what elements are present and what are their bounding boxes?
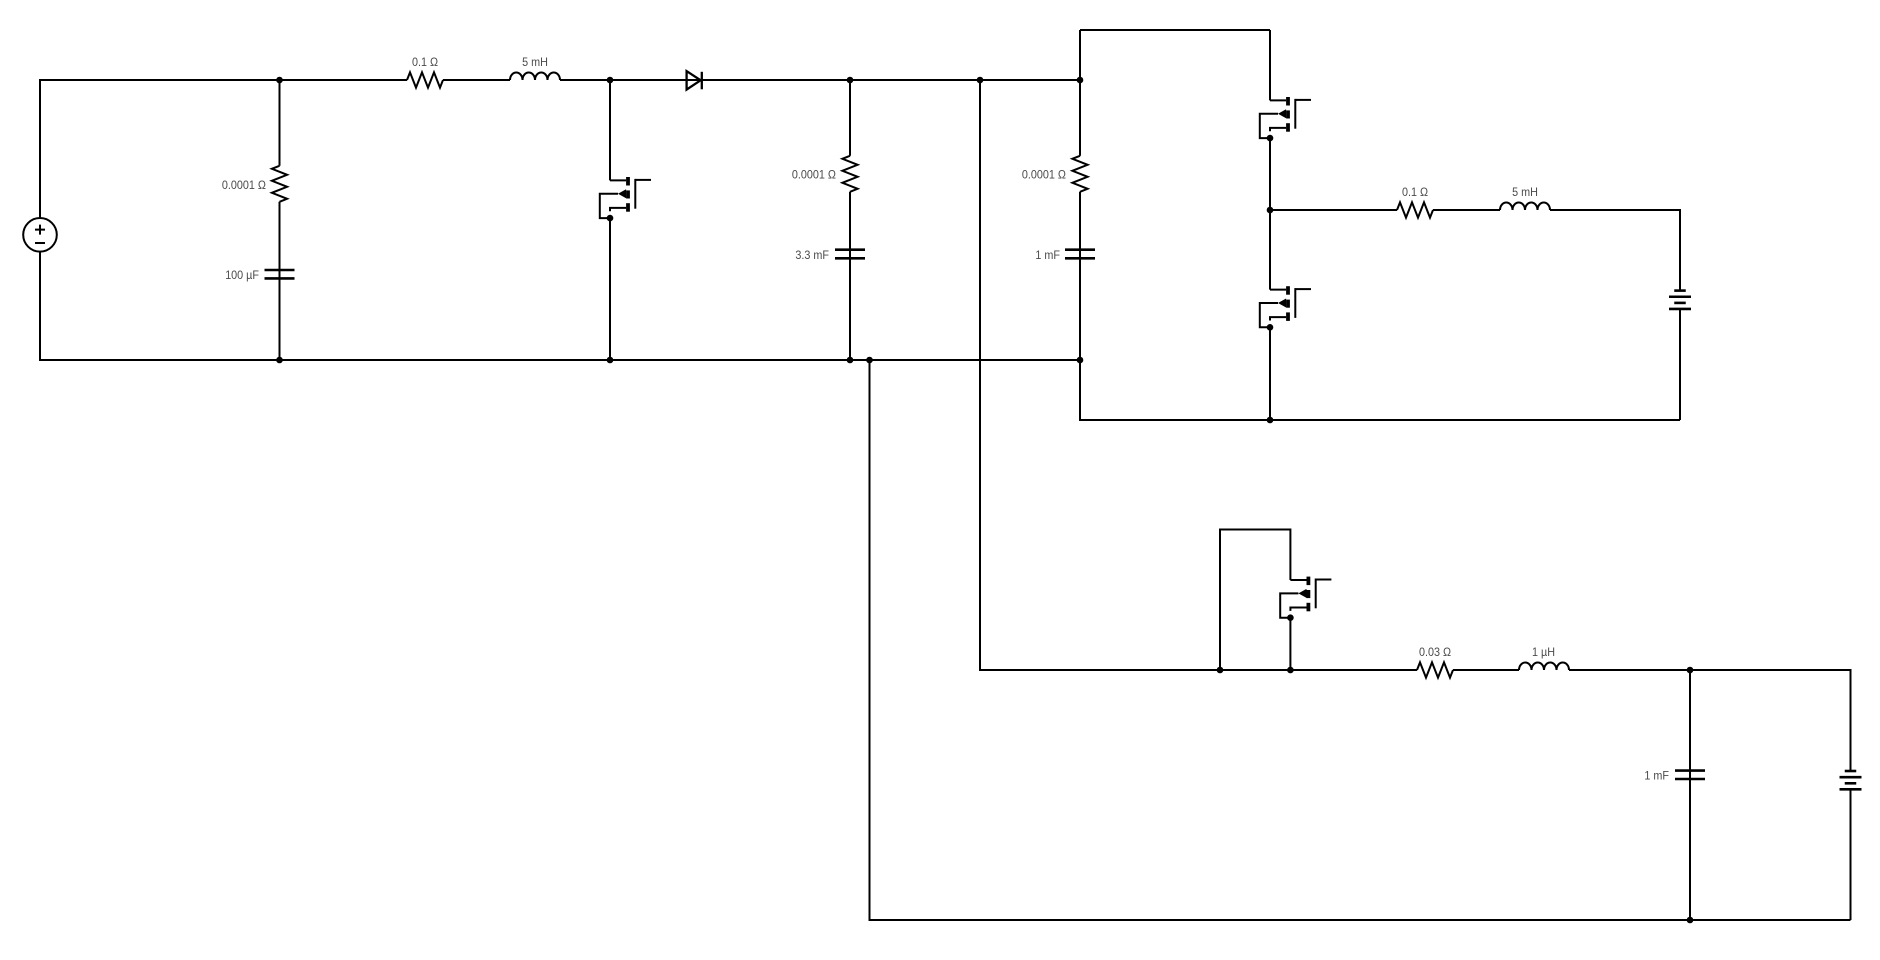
svg-text:0.03 Ω: 0.03 Ω xyxy=(1419,645,1451,659)
voltage source V1 xyxy=(23,218,57,252)
wire from B2 down to lower bottom rail xyxy=(1850,789,1852,920)
wire from L2 to battery B1 xyxy=(1550,210,1680,291)
wire from Q3 source to H-bridge bottom rail xyxy=(1269,327,1271,420)
wire source of Q1 to bottom rail xyxy=(609,218,611,360)
resistor R4 0.0001 ohm (x=1080 branch) xyxy=(1072,156,1087,192)
capacitor C4 1 mF plates xyxy=(1675,771,1705,779)
battery B2 xyxy=(1840,771,1862,789)
wire return path from upper bottom rail to lower bottom rail xyxy=(870,360,1851,920)
junction node lower rail x=1290 xyxy=(1287,667,1294,674)
transistor Q2 (high-side MOSFET) xyxy=(1260,97,1311,141)
wire from V1 + terminal up and along top rail xyxy=(40,80,407,218)
svg-text:0.0001 Ω: 0.0001 Ω xyxy=(222,178,266,192)
wire from Q2 source to H-bridge output node and Q3 drain xyxy=(1269,138,1271,290)
junction node top rail x=610 xyxy=(607,77,614,84)
svg-text:5 mH: 5 mH xyxy=(1512,185,1538,199)
wire H-bridge output segment xyxy=(1270,209,1397,211)
junction node bottom rail x=869.5 xyxy=(866,357,873,364)
wire from top rail node x=980 down to lower circuit rail xyxy=(980,80,1417,670)
wire drain lead of Q1 from top rail xyxy=(609,80,611,180)
junction node bottom rail x=610 xyxy=(607,357,614,364)
junction node lower rail x=1220 xyxy=(1217,667,1224,674)
junction node bottom rail x=850 xyxy=(847,357,854,364)
wire drain lead of Q2 xyxy=(1269,30,1271,100)
svg-text:1 mF: 1 mF xyxy=(1644,768,1669,782)
inductor L1 5 mH (top rail) xyxy=(510,73,560,81)
resistor R3 0.0001 ohm (x=850 branch) xyxy=(842,156,857,192)
junction node top rail x=850 xyxy=(847,77,854,84)
svg-text:0.1 Ω: 0.1 Ω xyxy=(1402,185,1428,199)
wire from Q4 source to lower rail xyxy=(1289,618,1291,670)
wire from L3 to battery B2 xyxy=(1569,670,1851,771)
resistor R1 0.1 ohm (top rail) xyxy=(407,72,443,87)
wire top rail right segment xyxy=(560,79,1080,81)
junction node lower rail x=1690 xyxy=(1687,667,1694,674)
inductor L3 1 uH (lower rail) xyxy=(1519,663,1569,671)
wire branch stub at x=279 top xyxy=(279,80,281,166)
svg-text:0.1 Ω: 0.1 Ω xyxy=(412,55,438,69)
svg-text:0.0001 Ω: 0.0001 Ω xyxy=(1022,167,1066,181)
wire branch stub at x=850 top xyxy=(849,80,851,156)
wire capacitor C4 branch xyxy=(1689,670,1691,920)
resistor R5 0.1 ohm (output rail) xyxy=(1397,202,1433,217)
wire H-bridge left leg x=1080 upper segment xyxy=(1079,30,1081,156)
svg-text:1 mF: 1 mF xyxy=(1035,248,1060,262)
battery B1 xyxy=(1669,291,1691,309)
capacitor C1 100 uF plates xyxy=(265,270,295,278)
capacitor C2 3.3 mF plates xyxy=(835,250,865,259)
junction node bottom rail x=279 xyxy=(276,357,283,364)
svg-text:1 µH: 1 µH xyxy=(1532,645,1555,659)
wire between R5 and L2 xyxy=(1433,209,1500,211)
junction node top rail x=1080 xyxy=(1077,77,1084,84)
wire bypass loop left side for Q4 xyxy=(1220,530,1290,671)
capacitor C3 1 mF plates xyxy=(1065,250,1095,259)
resistor R2 0.0001 ohm (x=279 branch) xyxy=(272,166,287,202)
junction node H-bridge bottom x=1270 xyxy=(1267,417,1274,424)
diode D1 xyxy=(687,71,702,90)
junction node bottom rail x=1080 xyxy=(1077,357,1084,364)
wire from V1 - terminal along bottom rail xyxy=(40,252,1080,360)
wire between R6 and L3 xyxy=(1453,669,1519,671)
wire from R2 through C1 to bottom rail xyxy=(279,202,281,360)
junction node top rail x=279 xyxy=(276,77,283,84)
wire between R1 and L1 xyxy=(443,79,510,81)
transistor Q4 (MOSFET, lower circuit) xyxy=(1280,577,1331,621)
svg-text:3.3 mF: 3.3 mF xyxy=(795,248,829,262)
junction node H-bridge output x=1270 xyxy=(1267,207,1274,214)
resistor R6 0.03 ohm (lower rail) xyxy=(1417,662,1453,677)
junction node top rail x=980 xyxy=(977,77,984,84)
wire from R3 through C2 to bottom rail xyxy=(849,192,851,360)
wire from R4 through C3 down and along H-bridge bottom rail xyxy=(1080,192,1680,420)
svg-text:5 mH: 5 mH xyxy=(522,55,548,69)
wire from B1 to H-bridge bottom rail xyxy=(1679,309,1681,420)
inductor L2 5 mH (output rail) xyxy=(1500,203,1550,210)
junction node lower bottom rail x=1690 xyxy=(1687,917,1694,924)
svg-text:0.0001 Ω: 0.0001 Ω xyxy=(792,167,836,181)
transistor Q1 (MOSFET) xyxy=(600,177,651,221)
wire H-bridge box top xyxy=(1080,29,1270,31)
transistor Q3 (low-side MOSFET) xyxy=(1260,286,1311,330)
svg-text:100 µF: 100 µF xyxy=(225,268,259,282)
